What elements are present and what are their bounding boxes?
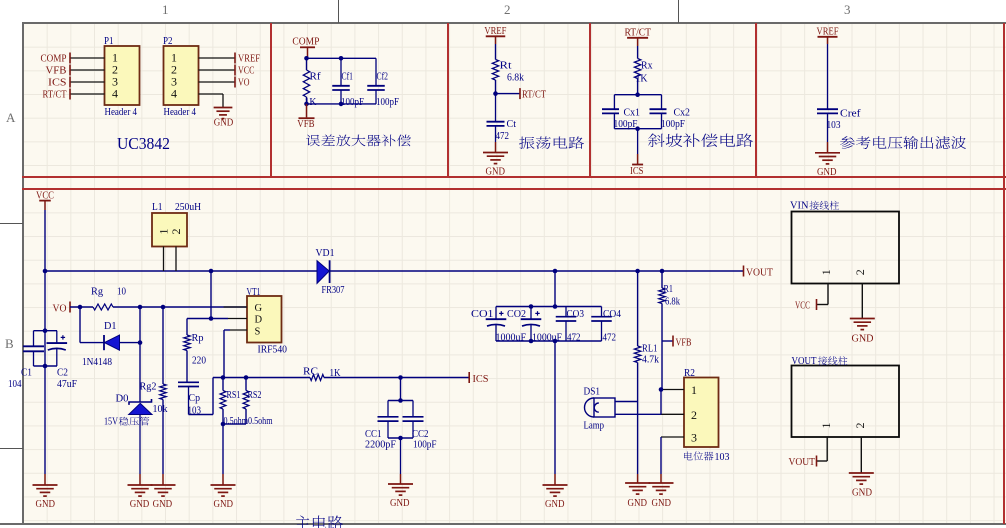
connector VIN	[792, 212, 900, 284]
svg-text:103: 103	[715, 452, 730, 463]
svg-text:6.8k: 6.8k	[665, 296, 681, 307]
zone letter A	[6, 110, 15, 126]
svg-text:VT1: VT1	[247, 287, 261, 298]
svg-text:VFB: VFB	[676, 337, 692, 348]
wire CC drop	[400, 378, 402, 401]
svg-text:1N4148: 1N4148	[82, 357, 112, 368]
svg-text:GND: GND	[652, 498, 672, 509]
pin S of VT1	[230, 329, 247, 331]
title main circuit	[295, 516, 343, 528]
svg-text:103: 103	[827, 120, 841, 131]
svg-text:1K: 1K	[636, 73, 648, 84]
svg-text:Rt: Rt	[500, 61, 512, 72]
svg-text:GND: GND	[486, 167, 506, 178]
svg-text:RT/CT: RT/CT	[625, 27, 652, 38]
svg-text:Cx2: Cx2	[674, 107, 691, 118]
power port VOUT (conn)	[817, 460, 828, 462]
svg-text:15V: 15V	[104, 416, 119, 427]
capacitor Cp	[178, 381, 199, 383]
resistor RS2	[245, 378, 247, 391]
svg-text:GND: GND	[214, 499, 234, 510]
svg-text:COMP: COMP	[41, 53, 67, 64]
red divider vertical x756	[755, 23, 757, 177]
net label RT/CT	[69, 89, 71, 100]
wire R2 pin3 to ground	[660, 437, 662, 474]
net label ICS	[69, 77, 71, 88]
svg-text:1: 1	[819, 269, 833, 275]
wire R1 to R2	[661, 341, 663, 390]
svg-text:4: 4	[171, 87, 177, 101]
pin 3 of P1	[70, 81, 105, 83]
svg-text:CO1: CO1	[471, 309, 494, 320]
pin 4 of P2	[199, 93, 224, 95]
svg-text:CC2: CC2	[412, 429, 429, 440]
wire source	[224, 329, 230, 331]
wire RL1 to ground	[637, 402, 639, 474]
zone tick top 1|2	[338, 0, 339, 23]
diode VD1	[317, 261, 329, 284]
svg-text:GND: GND	[817, 167, 837, 178]
svg-text:250uH: 250uH	[175, 202, 201, 213]
capacitor Cf2	[375, 58, 377, 86]
svg-text:100pF: 100pF	[376, 97, 399, 108]
svg-text:1: 1	[819, 423, 833, 429]
svg-text:G: G	[255, 303, 263, 314]
zone number 1	[162, 2, 169, 18]
ground GND (P2)	[214, 107, 233, 109]
resistor Rg2	[162, 307, 164, 384]
ground GND (RL1)	[625, 482, 650, 484]
capacitor CC1	[387, 401, 389, 417]
node VO junction	[78, 305, 83, 310]
capacitor CO1 electrolytic	[495, 307, 497, 320]
zone letter B	[5, 336, 14, 352]
svg-text:VCC: VCC	[795, 300, 810, 311]
svg-text:1000uF: 1000uF	[496, 333, 527, 344]
wire D0 to ground	[139, 414, 141, 474]
transistor VT1	[247, 296, 282, 343]
net label VOUT (rail)	[743, 266, 745, 277]
node D1 junction top	[138, 305, 143, 310]
node CC junction	[398, 375, 403, 380]
svg-text:RT/CT: RT/CT	[43, 89, 67, 100]
connector P2	[164, 46, 199, 105]
potentiometer R2	[684, 378, 719, 448]
ground GND (D0)	[128, 484, 153, 486]
resistor Rx	[637, 46, 639, 59]
svg-text:GND: GND	[36, 499, 56, 510]
net label VFB	[69, 65, 71, 76]
wire VO to gate	[70, 306, 93, 308]
svg-text:RC: RC	[303, 366, 318, 377]
svg-text:VREF: VREF	[238, 53, 260, 64]
svg-text:Cp: Cp	[189, 393, 201, 404]
label pot 103 (R2)	[684, 452, 714, 461]
wire Cref to ground	[827, 142, 829, 153]
svg-text:VO: VO	[238, 77, 250, 88]
wire snubber top	[187, 318, 211, 320]
pin D of VT1	[228, 318, 247, 320]
svg-text:GND: GND	[390, 498, 410, 509]
svg-text:Cx1: Cx1	[624, 107, 641, 118]
wire D1 branch left	[79, 307, 81, 343]
svg-text:1K: 1K	[330, 368, 341, 379]
title error-amp compensation	[306, 135, 411, 147]
ground GND (VIN)	[850, 318, 875, 320]
capacitor CC2	[412, 401, 414, 417]
svg-text:ICS: ICS	[630, 166, 644, 177]
resistor R1	[661, 271, 663, 288]
red divider horizontal lower	[22, 188, 1006, 190]
ground GND (RS)	[211, 484, 236, 486]
svg-text:VOUT: VOUT	[789, 457, 816, 468]
svg-text:Rp: Rp	[192, 333, 204, 344]
ground GND (filter)	[815, 152, 840, 154]
node CO junction	[553, 269, 558, 274]
resistor Rg	[93, 304, 113, 310]
wire D1 to node	[120, 342, 141, 344]
zone tick top 2|3	[678, 0, 679, 23]
resistor Rf	[306, 58, 308, 70]
svg-text:GND: GND	[628, 498, 648, 509]
svg-text:Rf: Rf	[310, 71, 322, 82]
wire VCC vertical	[44, 210, 46, 474]
net label RT/CT (osc)	[496, 93, 521, 95]
capacitor Cf1	[340, 58, 342, 86]
inductor L1	[152, 213, 187, 247]
wire Ct to ground	[495, 142, 497, 153]
svg-text:472: 472	[603, 333, 617, 344]
svg-text:GND: GND	[130, 499, 150, 510]
pin 2 of R2	[661, 413, 684, 415]
svg-text:Rg2: Rg2	[140, 381, 157, 392]
wire R2 pin1-pin2	[660, 390, 662, 415]
svg-text:2: 2	[691, 408, 697, 422]
svg-text:ICS: ICS	[473, 374, 489, 385]
wire lamp top	[615, 401, 638, 403]
wire P2 pin4 to ground	[222, 94, 224, 107]
diode D0 zener	[129, 399, 152, 405]
svg-text:Rg: Rg	[91, 286, 104, 297]
capacitor C1	[34, 330, 58, 332]
capacitor Cref	[817, 108, 838, 110]
pin 1 of R2	[661, 389, 684, 391]
pin 2 of P2	[199, 69, 236, 71]
svg-text:4: 4	[112, 87, 118, 101]
connector P1	[105, 46, 140, 105]
wire comp bottom rail	[307, 103, 377, 105]
wire CC to ground	[400, 438, 402, 474]
resistor RC	[310, 375, 324, 381]
svg-text:COMP: COMP	[292, 36, 319, 47]
svg-text:UC3842: UC3842	[117, 134, 170, 153]
wire CC top rail	[388, 400, 413, 402]
net label VFB (main)	[662, 340, 673, 342]
svg-text:GND: GND	[852, 488, 872, 499]
diode D1	[103, 335, 105, 350]
svg-text:C2: C2	[57, 367, 68, 378]
sheet border top	[22, 22, 1006, 24]
node R1 junction	[660, 269, 665, 274]
capacitor CO2 electrolytic	[530, 307, 532, 320]
power port VCC (VIN)	[817, 304, 828, 306]
sheet border bottom	[0, 523, 1006, 525]
ground GND (VCC)	[33, 484, 58, 486]
pin 2 of L1	[175, 247, 177, 272]
resistor Rp	[186, 319, 188, 336]
wire node to D0	[139, 343, 141, 402]
net label VO	[234, 77, 236, 88]
svg-text:RS2: RS2	[248, 390, 262, 401]
svg-text:Header 4: Header 4	[164, 107, 197, 118]
ground GND (CC)	[388, 483, 413, 485]
wire gate	[113, 306, 247, 308]
svg-text:Header 4: Header 4	[105, 107, 138, 118]
ground GND (osc)	[483, 152, 508, 154]
svg-text:Lamp: Lamp	[584, 420, 605, 431]
svg-text:Cf1: Cf1	[342, 71, 354, 82]
svg-text:Cref: Cref	[840, 108, 861, 119]
wire CO bottom rail	[496, 340, 602, 342]
zone number 3	[844, 2, 851, 18]
svg-text:R2: R2	[684, 368, 695, 379]
svg-text:CO3: CO3	[567, 309, 585, 320]
ground GND (R2)	[649, 482, 674, 484]
svg-text:47uF: 47uF	[57, 379, 77, 390]
svg-text:472: 472	[496, 131, 510, 142]
svg-text:VO: VO	[53, 303, 67, 314]
svg-text:CO4: CO4	[603, 309, 622, 320]
svg-text:3: 3	[691, 430, 697, 444]
pin 2 of P1	[70, 69, 105, 71]
power port VFB	[306, 104, 308, 118]
svg-text:6.8k: 6.8k	[507, 73, 525, 84]
svg-text:2: 2	[169, 229, 183, 235]
svg-text:VCC: VCC	[238, 65, 255, 76]
lamp DS1	[594, 398, 615, 417]
wire Cp to sense node	[189, 414, 214, 416]
svg-text:GND: GND	[153, 499, 173, 510]
wire CO to ground	[554, 341, 556, 474]
svg-text:Cf2: Cf2	[377, 71, 389, 82]
svg-text:C1: C1	[21, 367, 32, 378]
net label VCC	[234, 65, 236, 76]
svg-text:R1: R1	[664, 284, 674, 295]
svg-text:100pF: 100pF	[413, 439, 437, 450]
red divider vertical right edge	[1003, 23, 1005, 524]
wire C pair bottom	[34, 365, 58, 367]
red divider vertical x271	[270, 23, 272, 177]
svg-text:CC1: CC1	[365, 429, 382, 440]
pin 1 of P1	[70, 57, 105, 59]
pin 4 of P1	[70, 93, 105, 95]
wire RS join	[223, 423, 246, 425]
svg-text:1000uF: 1000uF	[532, 333, 562, 344]
svg-text:VOUT: VOUT	[746, 267, 774, 278]
capacitor C2 electrolytic	[56, 331, 58, 343]
capacitor CO3	[565, 307, 567, 317]
ground GND (Rg2)	[151, 484, 176, 486]
svg-text:IRF540: IRF540	[258, 344, 288, 355]
svg-text:ICS: ICS	[48, 77, 67, 88]
svg-text:1: 1	[691, 383, 697, 397]
resistor RS1	[222, 378, 224, 391]
node R2 wiper junction	[659, 387, 664, 392]
wire main rail left	[45, 270, 317, 272]
svg-text:GND: GND	[545, 499, 565, 510]
resistor Rt	[495, 44, 497, 60]
svg-text:472: 472	[567, 333, 581, 344]
ground GND (VOUT)	[849, 472, 874, 474]
svg-text:0.5ohm: 0.5ohm	[224, 416, 249, 427]
svg-text:D: D	[255, 315, 263, 326]
wire lamp bottom	[615, 413, 661, 415]
capacitor Cx1	[613, 95, 615, 110]
wire slope top rail	[614, 94, 661, 96]
svg-text:P2: P2	[163, 36, 173, 47]
red divider vertical x590	[589, 23, 591, 177]
sheet border left	[22, 22, 24, 525]
wire CO top rail	[496, 306, 602, 308]
red divider horizontal upper	[22, 176, 1006, 178]
wire main rail right	[330, 270, 743, 272]
node Rg2 junction	[161, 305, 166, 310]
svg-text:VFB: VFB	[297, 119, 314, 130]
svg-text:GND: GND	[214, 118, 234, 129]
zone tick left A|B	[0, 223, 23, 224]
svg-text:10k: 10k	[153, 404, 169, 415]
capacitor Ct	[495, 94, 497, 122]
svg-text:RL1: RL1	[642, 343, 658, 354]
svg-text:104: 104	[8, 379, 22, 390]
svg-text:2200pF: 2200pF	[365, 439, 396, 450]
svg-text:4.7k: 4.7k	[642, 354, 660, 365]
svg-text:2: 2	[853, 423, 867, 429]
wire VREF to Cref	[827, 44, 829, 109]
svg-text:VD1: VD1	[316, 248, 335, 259]
net label ICS (main)	[468, 372, 470, 383]
zone number 2	[504, 2, 511, 18]
node S junction	[221, 375, 226, 380]
net label ICS (slope)	[637, 129, 639, 154]
wire sense node	[213, 377, 310, 379]
zone tick left B|C	[0, 448, 23, 449]
node COMP rail	[307, 57, 377, 59]
svg-text:D1: D1	[104, 321, 117, 332]
wire slope bottom rail	[614, 128, 661, 130]
net label VREF	[234, 53, 236, 64]
pin 1 of L1	[163, 247, 165, 272]
wire CC bottom rail	[388, 437, 413, 439]
wire drain	[210, 271, 212, 319]
pin 3 of R2	[661, 436, 684, 438]
svg-text:RT/CT: RT/CT	[522, 90, 546, 101]
svg-text:P1: P1	[104, 36, 114, 47]
svg-text:GND: GND	[852, 334, 874, 345]
svg-text:100pF: 100pF	[661, 119, 685, 130]
wire VCC to ground	[44, 474, 46, 485]
node RT/CT junction	[493, 91, 498, 96]
svg-text:2: 2	[853, 269, 867, 275]
svg-text:0.5ohm: 0.5ohm	[248, 416, 273, 427]
capacitor Cx2	[661, 95, 663, 110]
svg-text:RS1: RS1	[227, 390, 241, 401]
svg-text:FR307: FR307	[322, 285, 345, 296]
svg-text:VOUT: VOUT	[792, 356, 817, 367]
title slope compensation	[648, 134, 753, 148]
capacitor CO4	[601, 307, 603, 317]
wire CO feed	[554, 271, 556, 307]
title vref output filter	[840, 136, 966, 149]
connector VOUT	[792, 366, 900, 438]
svg-text:VREF: VREF	[484, 26, 506, 37]
pin 2 of VIN	[861, 284, 863, 319]
svg-text:CO2: CO2	[507, 309, 526, 320]
pin 1 of VIN	[827, 284, 829, 305]
svg-text:VREF: VREF	[817, 26, 839, 37]
svg-text:L1: L1	[152, 202, 163, 213]
ground GND (CO)	[543, 484, 568, 486]
title oscillator circuit	[519, 137, 584, 149]
net label COMP	[69, 53, 71, 64]
pin 3 of P2	[199, 81, 236, 83]
node VCC-rail junction	[43, 269, 48, 274]
pin 1 of VOUT	[826, 437, 828, 461]
svg-text:220: 220	[192, 355, 206, 366]
svg-text:VFB: VFB	[46, 65, 67, 76]
red divider vertical x448	[447, 23, 449, 177]
svg-text:DS1: DS1	[584, 386, 601, 397]
node RS2 junction	[244, 375, 249, 380]
pin G of VT1	[224, 306, 247, 308]
svg-text:S: S	[255, 326, 261, 337]
svg-text:VIN: VIN	[790, 200, 809, 211]
pin 1 of P2	[199, 57, 236, 59]
pin 2 of VOUT	[860, 437, 862, 473]
svg-text:100pF: 100pF	[341, 97, 364, 108]
svg-text:VCC: VCC	[36, 190, 54, 201]
node RL1 junction	[635, 269, 640, 274]
node drain junction	[209, 269, 214, 274]
svg-text:D0: D0	[116, 393, 129, 404]
resistor RL1	[637, 271, 639, 346]
svg-text:Rx: Rx	[641, 61, 653, 72]
svg-text:10: 10	[117, 286, 126, 297]
svg-text:Ct: Ct	[507, 119, 517, 130]
